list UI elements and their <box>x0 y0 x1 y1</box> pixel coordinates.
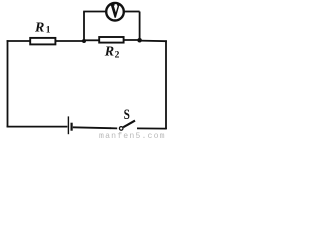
svg-text:manfen5.com: manfen5.com <box>99 131 166 139</box>
svg-text:S: S <box>124 105 130 122</box>
svg-text:1: 1 <box>46 26 51 36</box>
svg-text:R: R <box>104 45 114 60</box>
svg-text:V: V <box>110 0 120 22</box>
svg-text:R: R <box>34 21 44 36</box>
svg-text:2: 2 <box>115 51 120 61</box>
